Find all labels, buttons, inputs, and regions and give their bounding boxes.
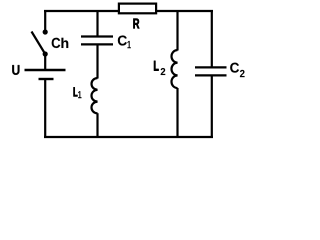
node switch bottom — [43, 51, 48, 56]
label L2 — [154, 61, 158, 71]
wire battery to bottom rail — [44, 79, 46, 138]
wire switch to battery — [44, 54, 46, 70]
wire right branch upper — [211, 10, 213, 67]
wire C1 branch upper — [96, 10, 98, 37]
label U — [12, 65, 19, 75]
label C2 — [230, 63, 239, 73]
inductor L1 coil — [92, 78, 98, 113]
switch Ch blade — [32, 32, 46, 55]
label L1 — [74, 87, 78, 96]
wire L2 to bottom rail — [176, 88, 178, 138]
node switch top — [43, 29, 48, 34]
battery U positive plate — [25, 69, 66, 71]
wire L1 to bottom rail — [96, 113, 98, 138]
wire top rail — [44, 10, 213, 12]
wire left branch upper — [44, 10, 46, 31]
wire C2 to bottom rail — [211, 75, 213, 138]
wire bottom rail — [44, 136, 213, 138]
capacitor C1 bottom plate — [81, 43, 113, 45]
capacitor C1 top plate — [81, 35, 113, 37]
capacitor C2 top plate — [195, 66, 227, 68]
battery U negative plate — [39, 78, 54, 80]
wire C1 to L1 — [96, 44, 98, 78]
resistor R box — [119, 4, 156, 14]
label Ch — [52, 38, 61, 48]
capacitor C2 bottom plate — [195, 74, 227, 76]
inductor L2 coil — [172, 50, 178, 88]
wire L2 branch upper — [176, 10, 178, 51]
label C1 — [118, 35, 127, 45]
label R — [133, 19, 139, 29]
